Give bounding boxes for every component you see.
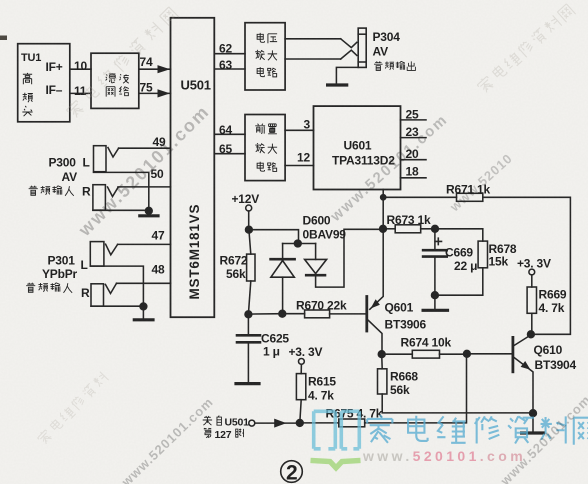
capacitor C669 plate top: [423, 249, 447, 252]
transistor Q610 base bar: [512, 337, 515, 371]
jack P304 plug body: [358, 28, 366, 67]
wire pin63 U501 to voltage-amp: [214, 68, 245, 70]
capacitor C669 plate bottom: [423, 255, 447, 258]
resistor R671: [457, 193, 483, 201]
wire pin50 P300 R to U501: [118, 186, 171, 188]
jack P300 R tip contact: [108, 187, 119, 197]
wire C625 bottom stub: [247, 342, 249, 382]
wire P301 ground stub: [142, 306, 144, 318]
wire pin65 U501 to preamp: [214, 153, 245, 155]
node R673 right junction: [432, 225, 439, 232]
wire pin62 U501 to voltage-amp: [214, 53, 245, 55]
transistor Q601 collector wire: [368, 320, 382, 351]
preamplifier circuit box: [245, 115, 285, 181]
wire from-U501 line: [255, 422, 300, 424]
wire R673 node to R678 top: [435, 229, 483, 241]
resistor R670: [305, 310, 330, 318]
watermark logo teal box 1: [314, 411, 336, 449]
diode D600 right anode stub: [315, 244, 317, 260]
wire +12V down: [248, 211, 250, 230]
node R669 bottom junction: [528, 331, 535, 338]
wire R671 to right rail: [483, 197, 571, 334]
node D600 anode junction: [279, 310, 286, 317]
node C669 bottom junction: [432, 292, 439, 299]
transistor Q610 emitter arrow: [521, 361, 531, 370]
terminal +3.3V right: [529, 269, 535, 275]
wire R678 bottom: [435, 268, 483, 295]
wire D600 left anode down: [282, 277, 284, 313]
jack P300 L tip contact: [108, 148, 119, 157]
wire C669 top stub: [434, 229, 436, 250]
resistor R673: [395, 225, 421, 233]
wire D600 common bar: [283, 243, 316, 245]
wire pin23 U601: [401, 137, 427, 139]
wire P300 L sleeve: [94, 172, 149, 210]
node R674 right junction: [464, 350, 471, 357]
wire R668 bottom to ground line: [382, 394, 533, 413]
diode D600 right triangle: [305, 259, 327, 273]
arrow from-U501: [274, 419, 286, 428]
wire +12V rail to diode feed: [249, 230, 299, 244]
transistor Q601 emitter arrow: [371, 299, 380, 308]
arrow into U501 pin75: [158, 89, 171, 97]
terminal +12V: [246, 205, 252, 211]
watermark logo teal box 2: [341, 411, 359, 449]
wire R675 to Q610 base riser: [365, 357, 467, 423]
resistor R615: [296, 374, 305, 400]
label P301 音频输入: [26, 283, 35, 293]
wire U601 pin to R671: [383, 196, 456, 198]
ground C669: [423, 309, 447, 312]
wire pin3 preamp to U601: [285, 129, 313, 131]
node P301 ground junction: [140, 303, 147, 310]
wire R668 top stub: [381, 354, 384, 369]
resistor R668: [378, 369, 387, 394]
node Q601 collector junction: [378, 351, 385, 358]
wire IF- TU1 to filter: [70, 92, 91, 94]
transistor Q601 base bar: [365, 297, 368, 332]
terminal +3.3V mid: [299, 359, 305, 365]
wire pin25 U601: [401, 119, 427, 121]
wire R673 left stub: [383, 228, 395, 230]
wire P301 R sleeve: [91, 305, 143, 307]
capacitor C625 plate top: [237, 334, 260, 337]
watermark diagonal top-right characters: [476, 3, 576, 95]
ground P301: [134, 318, 153, 321]
resistor R678: [478, 241, 487, 268]
jack P301 R tip contact: [105, 283, 116, 293]
ground P300: [140, 214, 158, 217]
ground P304: [328, 83, 347, 86]
wire +3.3V to R669: [531, 275, 533, 287]
label P300 音频输入: [29, 186, 38, 196]
wire Q610 base: [467, 353, 512, 355]
jack P301 R body: [91, 284, 104, 306]
label 滤波网络: [106, 73, 116, 83]
node +12V rail junction: [246, 226, 253, 233]
wire R672 bottom: [248, 281, 250, 314]
wire U601 bottom pin down: [382, 190, 384, 198]
wire R669 bottom: [531, 313, 533, 334]
jack P300 R body: [93, 185, 106, 210]
wire R673 right stub: [421, 228, 435, 230]
diode D600 right cathode bar: [306, 274, 325, 277]
wire pin20 U601: [401, 159, 427, 161]
wire voltage-amp out R to P304: [285, 58, 341, 60]
watermark diagonal bottom-left characters: [36, 371, 108, 445]
wire P301 L sleeve: [90, 266, 143, 306]
label 高频头: [23, 73, 32, 84]
label P304 音频输出: [374, 61, 383, 70]
scan artifact left edge: [0, 36, 7, 41]
plus sign C669: [435, 238, 441, 244]
node Q610 emitter ground junction: [530, 410, 537, 417]
contact P304 L: [341, 39, 357, 48]
wire U601 node down to R673 node: [382, 197, 384, 229]
wire IF+ TU1 to filter: [70, 68, 91, 70]
contact P304 R: [341, 50, 357, 59]
resistor R672: [247, 254, 255, 281]
wire C669 bottom stub: [434, 258, 436, 295]
label 第...脚: [204, 428, 211, 438]
label 前置放大电路: [255, 124, 265, 134]
wire C669 ground stub: [434, 295, 436, 309]
wire Q610 ground stub: [532, 413, 534, 432]
diode D600 left cathode bar: [271, 258, 295, 261]
terminal from U501 pin127: [249, 420, 255, 426]
node P300 ground junction: [145, 207, 152, 214]
filter network box: [91, 53, 139, 108]
wire pin48 P301 R to U501: [117, 282, 171, 284]
jack P301 L tip contact: [106, 244, 118, 255]
wire R674 right segment: [440, 353, 467, 355]
watermark logo green swoosh: [311, 460, 361, 467]
label 电压放大电路: [257, 33, 264, 42]
capacitor C625 plate bottom: [237, 341, 260, 344]
IC U601 box: [314, 106, 401, 189]
resistor R669: [527, 287, 536, 313]
watermark cyan site name: [367, 415, 588, 445]
jack P301 L body: [90, 242, 104, 267]
wire R674 left segment: [382, 353, 413, 355]
wire P300 ground stub: [148, 211, 150, 215]
diode D600 left triangle: [271, 261, 294, 278]
wire P304 sleeve to ground: [336, 67, 358, 84]
wire D600 right cathode bypass: [316, 229, 383, 287]
transistor Q601 emitter wire: [370, 232, 383, 309]
watermark diagonal top-left characters: [65, 6, 179, 120]
wire C625 top stub: [247, 314, 249, 334]
diode D600 left cathode stub: [282, 244, 284, 259]
node R673 left junction: [380, 225, 387, 232]
transistor Q610 emitter wire: [514, 357, 533, 413]
wire R615 node to R675: [300, 422, 339, 424]
resistor R675: [339, 419, 365, 427]
wire pin47 P301 L to U501: [118, 243, 171, 245]
wire +12V node to R672: [249, 230, 251, 254]
wire P300 R sleeve: [93, 209, 149, 211]
voltage amplifier circuit box: [245, 23, 285, 90]
resistor R674: [412, 350, 439, 358]
node R671 corner junction: [381, 195, 386, 200]
node D600 common junction: [294, 240, 301, 247]
ground C625: [236, 382, 259, 385]
wire base line to R670: [282, 313, 304, 315]
node R615 bottom junction: [296, 420, 303, 427]
jack P300 L body: [94, 146, 107, 172]
IC U501 box: [171, 18, 215, 317]
ground Q610: [522, 431, 544, 434]
wire pin75 filter to U501: [139, 92, 171, 94]
jack P304 plug sleeve divider: [358, 61, 366, 63]
jack P304 plug tip divider: [358, 33, 366, 35]
wire pin12 preamp to U601: [285, 165, 313, 167]
arrow into U501 pin74: [158, 65, 171, 73]
wire R615 bottom stub: [300, 400, 301, 423]
tuner TU1 box: [18, 44, 70, 122]
wire pin18 U601: [401, 177, 427, 179]
wire pin74 filter to U501: [139, 68, 171, 70]
node base line left junction: [245, 311, 252, 318]
wire pin64 U501 to preamp: [214, 133, 245, 135]
label 来自: [203, 416, 212, 425]
page number symbol circled 2: [281, 461, 303, 484]
wire base line left segment: [248, 313, 282, 315]
transistor Q610 collector wire: [514, 335, 531, 346]
wire voltage-amp out L to P304: [285, 38, 341, 40]
wire pin49 P300 L to U501: [119, 147, 171, 149]
wire R670 to Q601 base: [330, 313, 366, 315]
wire +3.3V to R615: [300, 364, 302, 373]
